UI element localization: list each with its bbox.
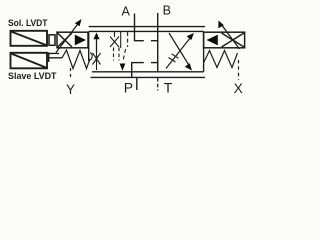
crossed arrows right position: diagonal up-right with arrow [166,33,194,69]
infinite-positioning rail bottom [91,76,206,78]
pilot supply X dashed [238,60,240,80]
svg-text:A: A [122,5,131,19]
svg-text:Y: Y [66,82,75,97]
port P stub below [136,78,138,91]
valve envelope [89,31,204,71]
port P line upper [131,63,133,78]
LVDT transducer box (top) [11,31,48,46]
solenoid R box [204,32,245,48]
svg-text:P: P [124,79,133,95]
proportional arrow right solenoid [218,21,239,50]
pilot throttle X symbol [110,32,121,61]
B blocked bar [151,40,158,42]
pilot drain Y dashed [70,68,72,80]
spring right [204,51,238,68]
connector plug slave LVDT [49,52,62,62]
port B line [157,13,159,72]
svg-text:Sol. LVDT: Sol. LVDT [8,18,48,29]
port A line [134,14,136,41]
spool left lower X symbol [90,52,100,70]
crossed arrows right position: diagonal down-right with arrow [169,33,192,71]
solenoid L box [57,32,88,48]
A blocked bar [134,40,144,42]
infinite-positioning rail top [89,26,205,28]
svg-text:T: T [164,80,173,96]
svg-text:X: X [234,81,243,96]
svg-text:B: B [163,4,171,18]
port T dashed line [157,78,159,91]
svg-text:Slave LVDT: Slave LVDT [8,71,57,82]
proportional arrow left solenoid [56,19,82,53]
connector plug top LVDT [49,35,55,46]
solenoid R triangle [207,35,218,46]
LVDT transducer box (slave, bottom) [11,53,48,69]
P blocked bar [131,62,144,64]
solenoid L triangle [75,35,86,46]
pilot dashed line with down arrow [120,32,128,71]
spring left [62,50,90,69]
T blocked bar [151,62,158,64]
spool up-arrow (left position) [93,33,99,53]
